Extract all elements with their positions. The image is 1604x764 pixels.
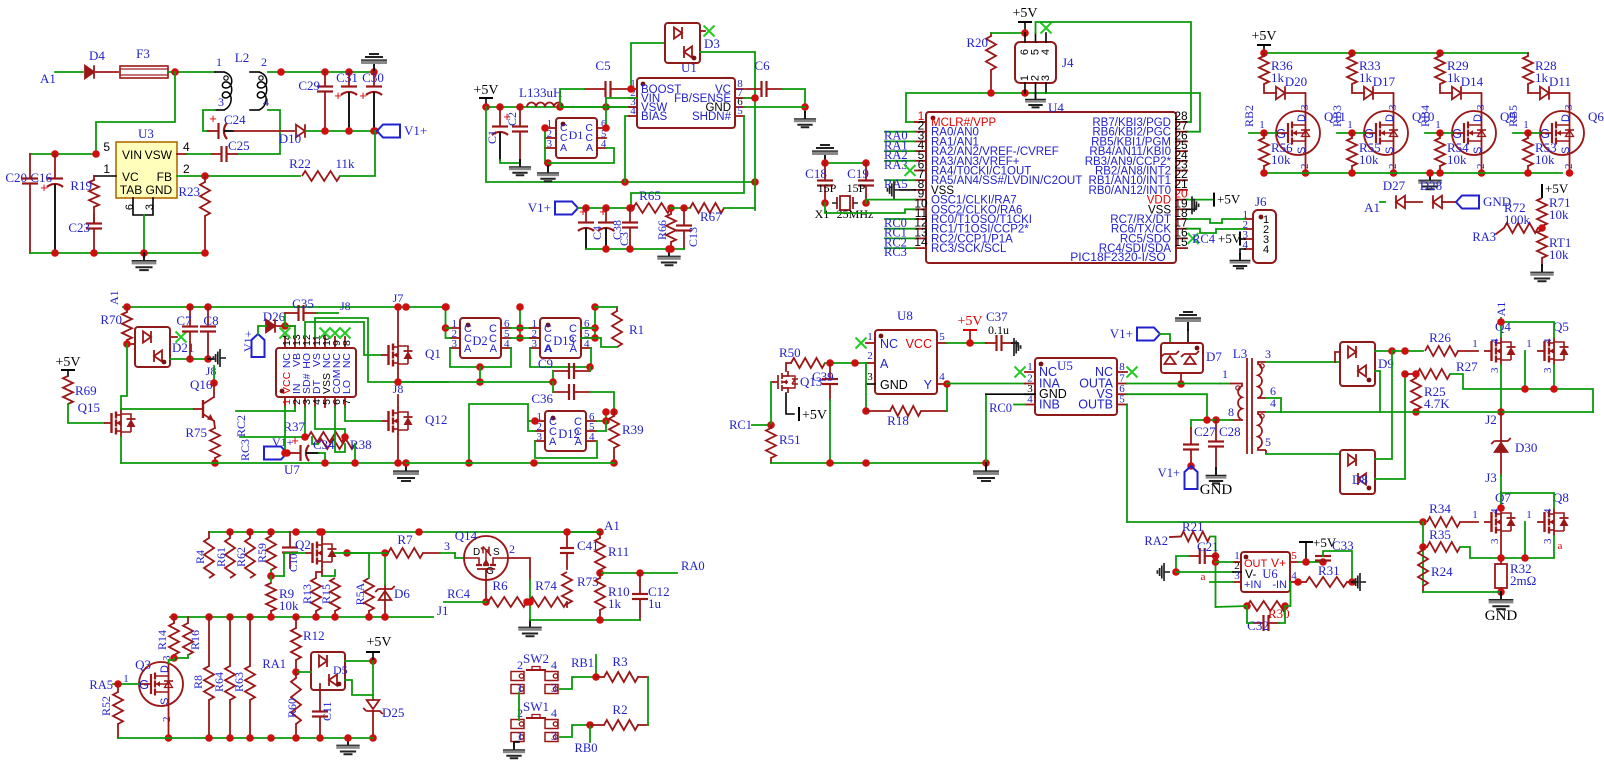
svg-text:BIAS: BIAS xyxy=(641,111,668,123)
resistor R6 xyxy=(488,597,527,607)
svg-text:C10: C10 xyxy=(288,553,300,572)
svg-text:RA0: RA0 xyxy=(681,559,705,573)
capacitor C20 xyxy=(29,154,31,179)
wire top A1 xyxy=(567,531,600,533)
flag GND xyxy=(1456,196,1479,209)
svg-text:X1: X1 xyxy=(815,207,830,221)
svg-text:10k: 10k xyxy=(1549,247,1569,262)
wires D12 left xyxy=(469,404,535,463)
svg-text:Q8: Q8 xyxy=(1553,490,1569,505)
wire to Q14 pin3 xyxy=(440,552,455,554)
wire RC6 to J6.2 xyxy=(1187,229,1245,233)
wire gate xyxy=(1337,132,1364,134)
X no-connect J4 pin4 xyxy=(1041,23,1052,34)
diode D14 xyxy=(1440,84,1452,93)
IC U1 xyxy=(637,78,735,128)
svg-text:7: 7 xyxy=(341,399,353,405)
long rail xyxy=(1127,521,1423,523)
svg-text:3: 3 xyxy=(1234,570,1240,582)
diode pair D8 xyxy=(1340,450,1375,494)
svg-text:3: 3 xyxy=(867,371,873,383)
svg-text:C16: C16 xyxy=(30,170,52,185)
svg-text:4: 4 xyxy=(1040,49,1052,55)
svg-text:+5V: +5V xyxy=(957,314,982,329)
svg-text:RC4/SDI/SDA: RC4/SDI/SDA xyxy=(1099,243,1172,255)
resistor R12 xyxy=(295,617,297,628)
capacitor C8 xyxy=(207,307,209,327)
svg-text:15: 15 xyxy=(1174,235,1188,249)
transistor Q5 xyxy=(1537,350,1545,352)
resistor R23 xyxy=(204,176,206,182)
svg-text:R31: R31 xyxy=(1318,563,1340,578)
svg-text:J1: J1 xyxy=(437,603,449,618)
resistor R15 xyxy=(334,611,336,617)
wire R13 top xyxy=(316,572,322,578)
wire xyxy=(96,71,118,73)
svg-text:+5V: +5V xyxy=(366,635,391,650)
svg-text:3: 3 xyxy=(1265,347,1271,361)
svg-text:1: 1 xyxy=(517,681,523,695)
svg-text:V1+: V1+ xyxy=(241,330,255,352)
svg-text:1: 1 xyxy=(1472,338,1478,350)
wire down to y181 rail xyxy=(486,107,755,182)
svg-text:A: A xyxy=(549,436,557,448)
resistor R25 4.7K xyxy=(1415,374,1417,378)
resistor R5A xyxy=(368,611,370,617)
svg-text:4: 4 xyxy=(1263,244,1269,256)
wire FB pin2 xyxy=(177,175,300,177)
wire R30 left xyxy=(1216,606,1248,607)
ground xyxy=(824,155,826,163)
diode array D13A xyxy=(540,318,581,358)
right link xyxy=(647,677,649,725)
wire Q15 drain to Q16 base xyxy=(121,408,193,410)
wire Q7 source to R32 xyxy=(1500,536,1502,564)
svg-text:3: 3 xyxy=(1299,104,1311,110)
svg-text:+5V: +5V xyxy=(802,408,827,423)
svg-text:6: 6 xyxy=(124,204,136,210)
resistor R11 xyxy=(599,532,601,538)
svg-text:R63: R63 xyxy=(232,672,246,692)
transistor Q13 xyxy=(771,371,788,393)
wire RC1 up to Q13 gate xyxy=(770,382,772,425)
transistor Q12 xyxy=(381,420,389,422)
diode pair D3 xyxy=(665,23,700,63)
svg-text:1: 1 xyxy=(1523,119,1529,131)
bottom wire xyxy=(530,619,640,621)
svg-text:+5V: +5V xyxy=(1251,29,1276,44)
capacitor C2 xyxy=(519,107,521,127)
switch SW2 xyxy=(511,672,524,681)
svg-text:GND: GND xyxy=(1200,482,1233,498)
V1+ rail xyxy=(578,207,631,209)
svg-text:J6: J6 xyxy=(1255,194,1267,209)
resistor R39 xyxy=(613,412,615,416)
svg-text:C35: C35 xyxy=(292,296,314,311)
svg-text:3: 3 xyxy=(551,681,557,695)
wire xyxy=(1373,93,1394,112)
resistor R18 xyxy=(866,410,890,412)
svg-text:3: 3 xyxy=(1489,367,1501,373)
wire C21 left xyxy=(1176,556,1189,572)
svg-text:U7: U7 xyxy=(284,462,300,477)
wire C24 to D10 xyxy=(234,130,294,132)
svg-text:RA1: RA1 xyxy=(262,657,286,671)
svg-text:GND: GND xyxy=(880,378,908,392)
resistor R33 1k xyxy=(1351,53,1353,56)
svg-text:3: 3 xyxy=(1387,104,1399,110)
svg-text:R12: R12 xyxy=(303,628,325,643)
svg-text:a: a xyxy=(1201,571,1206,583)
capacitor C13 xyxy=(683,208,685,226)
svg-text:+: + xyxy=(579,204,587,219)
wire IN pin2 xyxy=(294,407,296,411)
svg-text:G: G xyxy=(486,566,494,577)
svg-text:8: 8 xyxy=(1119,361,1125,373)
svg-text:3: 3 xyxy=(537,431,543,443)
diode D25 xyxy=(367,700,380,709)
wire D7 down xyxy=(1180,373,1182,384)
resistor R74 xyxy=(529,597,567,607)
capacitor C1 xyxy=(499,107,501,127)
svg-text:R1: R1 xyxy=(629,322,644,337)
svg-text:R51: R51 xyxy=(779,432,801,447)
svg-text:R59: R59 xyxy=(255,543,269,563)
capacitor C33 xyxy=(1315,555,1331,557)
capacitor C39 xyxy=(829,363,831,379)
bottom rail xyxy=(30,252,205,254)
svg-text:C18: C18 xyxy=(805,166,827,181)
svg-text:U4: U4 xyxy=(1048,100,1064,115)
svg-text:C29: C29 xyxy=(298,78,320,93)
transistor Q8 xyxy=(1537,521,1545,523)
resistor R22 11k xyxy=(302,171,340,181)
ground under J4 xyxy=(1035,93,1037,99)
svg-text:-IN: -IN xyxy=(1272,579,1287,591)
wire xyxy=(55,71,83,73)
svg-text:R67: R67 xyxy=(700,209,722,224)
svg-text:D25: D25 xyxy=(382,705,404,720)
wire D3 right to FB net xyxy=(700,52,755,210)
capacitor C28 xyxy=(1215,420,1217,442)
mid rail xyxy=(403,381,553,383)
source rail xyxy=(1264,172,1562,174)
svg-text:L133uH: L133uH xyxy=(519,85,562,100)
svg-text:10k: 10k xyxy=(1447,152,1467,167)
svg-text:R5A: R5A xyxy=(353,582,367,605)
wire BOOST xyxy=(631,43,665,89)
svg-text:C21: C21 xyxy=(1197,539,1219,554)
wire Q2 drain top xyxy=(321,532,323,539)
svg-text:C32: C32 xyxy=(1247,618,1269,633)
wire pin4 xyxy=(237,110,280,154)
transistor Q15 xyxy=(104,422,112,424)
svg-text:14: 14 xyxy=(914,235,928,249)
svg-text:R26: R26 xyxy=(1429,330,1451,345)
svg-text:R6: R6 xyxy=(492,578,508,593)
svg-text:R4: R4 xyxy=(193,550,207,564)
ground xyxy=(513,743,515,750)
resistor R59 xyxy=(270,532,272,536)
svg-text:Q15: Q15 xyxy=(78,400,100,415)
ground C28 xyxy=(1215,468,1217,469)
svg-text:4: 4 xyxy=(183,140,190,154)
svg-text:SW2: SW2 xyxy=(523,651,549,666)
wire Q1 drain xyxy=(397,307,399,341)
diode D27 xyxy=(1396,196,1405,209)
svg-text:J3: J3 xyxy=(1485,470,1497,485)
resistor R54 10k xyxy=(1439,133,1441,138)
svg-text:RC2: RC2 xyxy=(234,415,248,437)
wires switches right xyxy=(560,677,596,689)
IC U5 xyxy=(1035,358,1117,415)
wire HO pin12 to Q1 gate xyxy=(305,322,381,355)
ground xyxy=(668,249,670,256)
svg-text:3: 3 xyxy=(547,139,552,150)
svg-text:A: A xyxy=(560,142,567,154)
capacitor C35 xyxy=(284,313,286,326)
wire U5 GND down xyxy=(985,394,987,463)
bottom rail xyxy=(118,737,373,739)
svg-text:1: 1 xyxy=(1347,119,1353,131)
svg-text:5: 5 xyxy=(939,331,945,343)
svg-text:2: 2 xyxy=(261,55,267,69)
svg-text:V1+: V1+ xyxy=(1110,326,1133,341)
power VDD +5V xyxy=(1187,199,1214,201)
diode D20 xyxy=(1264,84,1276,93)
wire +5V down xyxy=(372,661,374,700)
svg-text:J8: J8 xyxy=(340,299,351,313)
resistor R2 xyxy=(590,724,604,726)
transistor Q4 xyxy=(1484,350,1492,352)
svg-text:V1+: V1+ xyxy=(528,200,551,215)
wire Q14 right xyxy=(508,558,530,580)
ground xyxy=(143,253,145,261)
resistor R61 xyxy=(229,532,231,538)
wire VCC pin1 down xyxy=(284,407,286,453)
wire xyxy=(96,72,175,154)
svg-text:2: 2 xyxy=(867,350,873,362)
bottom rail xyxy=(121,462,406,464)
svg-text:RC4: RC4 xyxy=(1192,232,1216,246)
svg-text:1: 1 xyxy=(1222,367,1228,381)
svg-text:+5V: +5V xyxy=(55,355,80,370)
wire Q2 to R7 xyxy=(335,552,388,554)
svg-text:D30: D30 xyxy=(1515,440,1537,455)
transistor Q11 xyxy=(1276,111,1320,155)
bottom rail to right xyxy=(406,462,614,464)
resistor R21 xyxy=(1181,532,1210,542)
wire to R26/R27 xyxy=(1392,350,1423,352)
svg-text:D: D xyxy=(159,665,171,673)
resistor R37 xyxy=(308,432,345,442)
svg-text:D6: D6 xyxy=(394,586,410,601)
diode array D12 xyxy=(545,411,586,451)
svg-text:RB3: RB3 xyxy=(1330,105,1344,127)
svg-text:1k: 1k xyxy=(608,596,622,611)
wire D21 out xyxy=(170,358,210,360)
svg-text:0.1u: 0.1u xyxy=(988,323,1009,337)
bottom rail xyxy=(586,248,684,250)
wire R30 right up to -IN xyxy=(1287,582,1291,606)
wire RC7 to J6.1 xyxy=(1187,219,1245,223)
svg-text:NC: NC xyxy=(341,353,353,369)
svg-text:D28: D28 xyxy=(1420,178,1442,193)
wire J6.4 gnd xyxy=(1240,249,1245,254)
svg-text:1k: 1k xyxy=(1359,70,1373,85)
svg-text:4: 4 xyxy=(584,338,590,350)
wire Q14 gate down xyxy=(485,580,487,602)
ground xyxy=(804,112,806,119)
svg-text:3: 3 xyxy=(144,204,156,210)
capacitor C38 xyxy=(605,208,607,223)
svg-text:3: 3 xyxy=(1542,367,1554,373)
svg-text:A1: A1 xyxy=(1494,302,1508,317)
svg-text:+5V: +5V xyxy=(473,83,498,98)
svg-text:C7: C7 xyxy=(176,313,192,328)
svg-text:10k: 10k xyxy=(1549,207,1569,222)
svg-text:A: A xyxy=(570,343,578,355)
wire C6 to gnd xyxy=(782,89,805,112)
svg-text:C25: C25 xyxy=(228,138,250,153)
svg-text:C20: C20 xyxy=(5,170,27,185)
flag V1+ xyxy=(1137,328,1160,341)
resistor R62 xyxy=(249,532,251,538)
transistor Q16 xyxy=(202,400,204,418)
svg-text:G: G xyxy=(1540,126,1550,141)
ground xyxy=(1541,265,1543,272)
connector J6 xyxy=(1253,210,1276,263)
svg-text:RB0: RB0 xyxy=(575,741,598,755)
svg-text:R69: R69 xyxy=(75,383,97,398)
svg-text:Q2: Q2 xyxy=(295,537,311,552)
capacitor C10 xyxy=(289,532,291,548)
svg-text:D2: D2 xyxy=(472,334,487,348)
diode pair D5 xyxy=(311,652,345,690)
svg-text:S: S xyxy=(493,547,500,558)
svg-text:R27: R27 xyxy=(1456,359,1478,374)
wire source xyxy=(1393,154,1395,173)
ground xyxy=(1429,173,1431,180)
wire MCLR rail xyxy=(906,93,1046,122)
svg-text:11k: 11k xyxy=(335,156,355,171)
wire LO pin7 to Q12 gate xyxy=(345,407,381,421)
svg-text:8: 8 xyxy=(1228,405,1234,419)
svg-text:C5: C5 xyxy=(595,58,610,73)
transistor Q6 xyxy=(1540,111,1584,155)
wire Q8 gate xyxy=(1524,522,1526,558)
svg-text:R35: R35 xyxy=(1429,527,1451,542)
svg-text:A1: A1 xyxy=(1364,200,1380,215)
svg-text:D4: D4 xyxy=(89,48,105,63)
svg-text:D7: D7 xyxy=(1206,349,1222,364)
svg-text:+: + xyxy=(359,88,367,103)
svg-text:1: 1 xyxy=(517,729,523,743)
resistor R1 xyxy=(616,307,618,311)
wires switches left xyxy=(518,693,520,720)
svg-text:Q1: Q1 xyxy=(425,346,441,361)
net J8 xyxy=(317,312,338,314)
ground xyxy=(547,166,549,173)
svg-text:C27: C27 xyxy=(1194,424,1216,439)
transistor Q7 xyxy=(1484,521,1492,523)
resistor R35 xyxy=(1423,546,1427,548)
wire Q3 drain xyxy=(170,654,178,662)
capacitor C11 xyxy=(319,690,321,712)
+5V rail xyxy=(1264,52,1528,54)
capacitor C29 xyxy=(324,72,326,87)
svg-text:RA3: RA3 xyxy=(1472,230,1496,244)
wire left caps top xyxy=(30,153,96,155)
svg-text:Q12: Q12 xyxy=(425,412,447,427)
svg-text:D3: D3 xyxy=(704,36,720,51)
flag V1+ xyxy=(555,202,578,215)
wire Q16 collector xyxy=(213,383,215,397)
wire OSC1 xyxy=(866,200,915,203)
wire VC pin1 xyxy=(94,175,116,177)
IC U6 xyxy=(1241,552,1290,592)
svg-text:C23: C23 xyxy=(68,220,90,235)
wire C34 to rail xyxy=(319,453,325,463)
wire R50 left to Q13 xyxy=(786,363,791,371)
junction xyxy=(171,68,179,76)
svg-text:R60: R60 xyxy=(285,698,299,718)
wire R27 to Q5 source xyxy=(1450,374,1593,412)
svg-text:1k: 1k xyxy=(1535,70,1549,85)
top rail A1 xyxy=(209,531,600,533)
net RA5 xyxy=(885,179,915,181)
svg-text:1k: 1k xyxy=(1271,70,1285,85)
resistor R72 100k xyxy=(1538,227,1542,229)
wire C1 bottom xyxy=(500,160,520,163)
svg-text:R11: R11 xyxy=(608,544,629,559)
svg-text:Q6: Q6 xyxy=(1588,109,1604,124)
wire L3 pin3 to D9 xyxy=(1266,361,1340,363)
wire Q15 drain up xyxy=(121,344,127,409)
ground xyxy=(529,620,531,627)
capacitor C31 xyxy=(348,72,350,87)
wire VB pin13 xyxy=(285,326,295,337)
resistor RT1 10k xyxy=(1541,258,1543,265)
svg-text:R23: R23 xyxy=(178,184,200,199)
wire GND pin6 xyxy=(744,106,805,108)
wire xyxy=(168,71,215,73)
svg-text:R16: R16 xyxy=(188,630,202,650)
resistor R3 xyxy=(596,676,604,678)
connector J4 xyxy=(1015,42,1056,83)
svg-text:R64: R64 xyxy=(212,672,226,692)
svg-text:L2: L2 xyxy=(235,50,249,65)
svg-text:C30: C30 xyxy=(362,70,384,85)
power +5V right xyxy=(1541,184,1543,198)
svg-text:R3: R3 xyxy=(612,654,627,669)
wire SD pin3 xyxy=(304,407,306,437)
svg-text:RA2: RA2 xyxy=(1144,534,1168,548)
ground xyxy=(405,463,407,471)
wire R50 to A xyxy=(825,362,866,364)
svg-text:R70: R70 xyxy=(100,312,122,327)
svg-text:VCC: VCC xyxy=(906,337,932,351)
svg-text:3: 3 xyxy=(532,338,538,350)
capacitor C9 xyxy=(553,370,569,372)
svg-text:RC3: RC3 xyxy=(884,245,907,259)
svg-text:J8: J8 xyxy=(393,382,404,396)
svg-text:4: 4 xyxy=(504,338,510,350)
diode D17 xyxy=(1352,84,1364,93)
resistor R70 xyxy=(126,307,128,312)
svg-text:SW1: SW1 xyxy=(523,699,549,714)
svg-text:RB4: RB4 xyxy=(1418,105,1432,127)
